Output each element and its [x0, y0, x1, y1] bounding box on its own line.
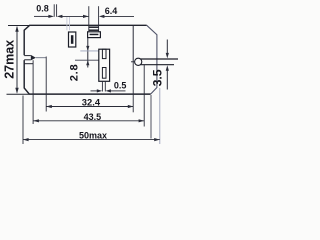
- dimension 6.4: [83, 6, 134, 31]
- right pin top line: [138, 58, 178, 60]
- right pin centerline stub: [131, 61, 135, 63]
- dimension 2.8 reference tick lower: [75, 59, 99, 61]
- central pin inner rect A: [102, 49, 106, 58]
- right pin bottom line: [138, 64, 174, 66]
- pin A outer blade: [69, 32, 76, 47]
- bottom edge extension tick: [7, 93, 30, 95]
- top edge extension tick: [8, 25, 29, 27]
- 0.5 extension lines: [102, 81, 105, 91]
- central pin inner rect B: [102, 68, 106, 79]
- 43.5 right extension line: [143, 65, 145, 127]
- dimension 50max: [23, 88, 160, 144]
- body bottom and lower-left wall: [24, 60, 150, 94]
- svg-text:2.8: 2.8: [68, 64, 80, 81]
- dimension 0.5: [91, 89, 126, 92]
- dimension 32.4: [46, 105, 133, 108]
- left notch pin tip (filled triangle): [31, 55, 36, 61]
- dimension 2.8 reference tick upper: [80, 50, 99, 52]
- 32.4 right extension line: [132, 62, 134, 113]
- dimension 43.5: [33, 119, 144, 122]
- left notch slot lines: [24, 56, 31, 60]
- svg-text:3.5: 3.5: [151, 69, 165, 86]
- left wall stub line: [24, 63, 33, 65]
- svg-text:6.4: 6.4: [105, 6, 118, 16]
- svg-text:0.5: 0.5: [114, 80, 127, 90]
- dimension 27max line: [15, 26, 18, 94]
- pin C inner bar: [90, 34, 99, 36]
- leader from notch pin to 32.4 extension: [36, 57, 46, 59]
- body outline: [24, 25, 147, 55]
- dimension 3.5 down arrow: [166, 40, 169, 90]
- svg-text:50max: 50max: [79, 131, 107, 141]
- terminal ladder bars (top pin section): [89, 27, 99, 30]
- svg-text:32.4: 32.4: [82, 96, 101, 107]
- dimension 0.8: [34, 4, 88, 18]
- svg-text:43.5: 43.5: [84, 112, 102, 122]
- body right wall: [147, 25, 157, 94]
- svg-text:0.8: 0.8: [36, 4, 49, 14]
- central pin assembly outer box: [99, 49, 110, 81]
- pin A inner bar: [71, 35, 74, 44]
- right pin round head: [135, 58, 142, 65]
- 32.4 left extension line: [45, 57, 47, 112]
- leader lines from 0.8 to pin A: [67, 17, 70, 30]
- pin C body (horizontal blade): [88, 32, 101, 38]
- 43.5 left extension line: [32, 60, 34, 124]
- leader from pin C down through 2.8 arrows: [86, 38, 89, 68]
- chamfer reference line: [150, 95, 152, 139]
- svg-text:27max: 27max: [3, 40, 17, 79]
- interior vertical line to right pin: [132, 26, 134, 62]
